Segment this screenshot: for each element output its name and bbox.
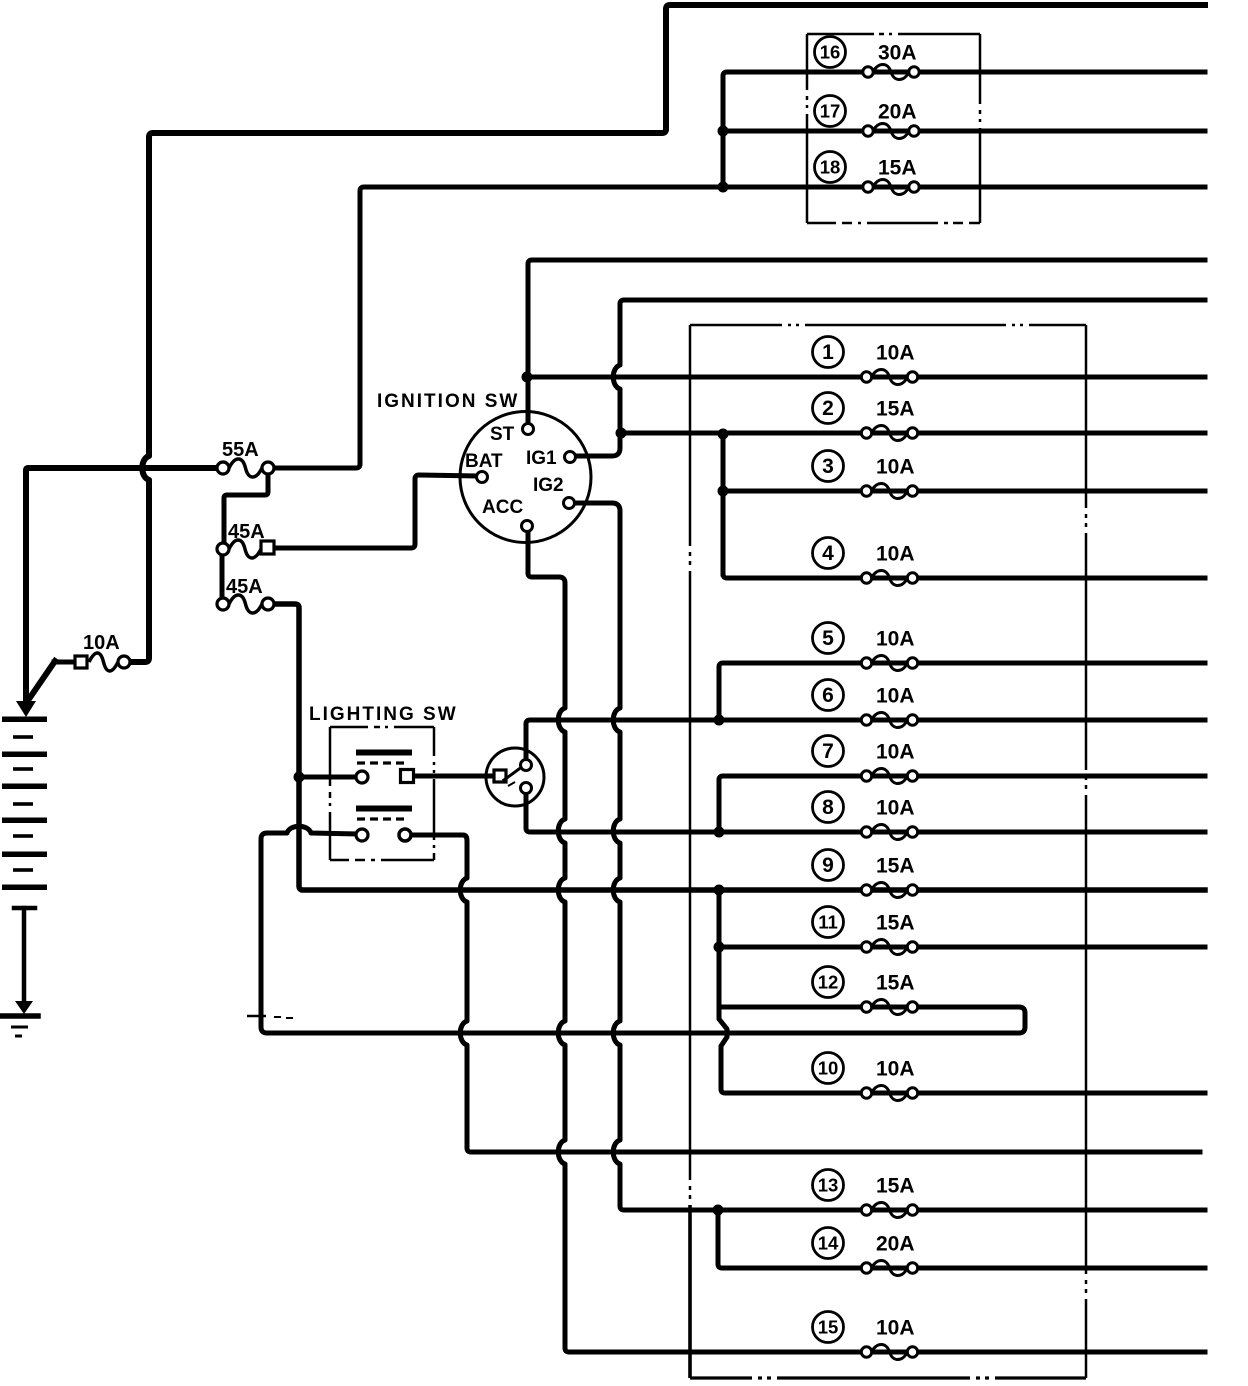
svg-text:20A: 20A xyxy=(876,1233,915,1256)
label fuse 6 10A xyxy=(813,680,915,711)
svg-text:45A: 45A xyxy=(228,521,265,543)
svg-text:IG1: IG1 xyxy=(526,448,557,469)
fuse box (fuses 16-18) dashed outline xyxy=(807,34,980,223)
wire fuse 3 row xyxy=(723,489,1205,494)
wire fuse 12 row and return loop to lighting switch xyxy=(261,826,1025,1033)
fuse 4 10A xyxy=(861,571,917,586)
svg-text:14: 14 xyxy=(818,1233,839,1254)
fuse 3 10A xyxy=(861,484,917,499)
lighting switch upper contact bar xyxy=(356,750,412,756)
svg-text:10A: 10A xyxy=(876,1058,915,1081)
fuse 18 15A xyxy=(863,180,919,195)
label BAT xyxy=(465,451,503,472)
svg-text:IGNITION SW: IGNITION SW xyxy=(377,391,519,412)
wire fuse 4 row xyxy=(723,574,1205,578)
dimmer switch upper terminal xyxy=(521,760,532,771)
svg-text:10A: 10A xyxy=(876,456,915,479)
fuse 15 10A xyxy=(861,1345,917,1360)
wire ignition ST terminal riser and output line y=260 xyxy=(528,260,1205,424)
svg-text:6: 6 xyxy=(822,684,834,707)
fuse 1 10A xyxy=(861,370,917,385)
svg-text:ACC: ACC xyxy=(482,497,523,518)
label fuse 2 15A xyxy=(813,393,915,424)
fuse 12 15A xyxy=(861,1000,917,1015)
wire 45A lower output via x=299 riser to lighting switch feed and fuse 9 row xyxy=(275,604,1205,890)
fuse 7 10A xyxy=(861,769,917,784)
label fuse 13 15A xyxy=(813,1170,915,1201)
fuse 6 10A xyxy=(861,713,917,728)
label fuse 14 20A xyxy=(813,1228,915,1259)
svg-text:IG2: IG2 xyxy=(533,475,564,496)
ignition switch body xyxy=(460,412,591,543)
wire battery positive to 55A fusible link xyxy=(26,468,217,701)
ignition terminal IG1 xyxy=(565,452,576,463)
junction IG2 / fuse 13 xyxy=(713,1205,724,1216)
wire fuse 17 row xyxy=(723,129,1205,134)
wire dimmer lower terminal to fuse 8 row xyxy=(526,793,1205,832)
svg-text:15A: 15A xyxy=(876,912,915,935)
wire battery positive to 10A fusible link (diagonal) xyxy=(29,661,76,699)
battery negative stem xyxy=(14,908,35,1002)
svg-text:10: 10 xyxy=(818,1058,839,1079)
lighting switch lower-right terminal xyxy=(399,829,411,841)
label fuse 4 10A xyxy=(813,538,915,569)
svg-text:15A: 15A xyxy=(876,1175,915,1198)
svg-text:12: 12 xyxy=(818,972,839,993)
fuse 16 30A xyxy=(863,65,919,80)
wire ignition IG1 terminal riser and output line y=300 xyxy=(576,300,1205,456)
junction fuse bus / fuse 3 xyxy=(718,486,729,497)
svg-text:9: 9 xyxy=(822,854,834,877)
junction lighting output / fuse 9 xyxy=(714,885,725,896)
svg-text:5: 5 xyxy=(822,627,834,650)
fusible link 45A (upper) xyxy=(217,540,274,558)
svg-text:15A: 15A xyxy=(876,398,915,421)
ignition terminal ST xyxy=(523,424,534,435)
label fuse 15 10A xyxy=(813,1312,915,1343)
battery positive arrowhead xyxy=(16,701,36,717)
wire fuse bus fuse 13 to fuse 14 xyxy=(718,1210,1205,1268)
wire 10A link output via left riser and top feed to right edge xyxy=(130,5,1205,662)
dimmer switch lower terminal xyxy=(521,783,532,794)
label 45A (lower) xyxy=(226,576,263,598)
ground arrowhead xyxy=(15,1001,33,1014)
ignition terminal BAT xyxy=(477,472,488,483)
label 45A (upper) xyxy=(228,521,265,543)
wire ignition IG2 terminal via long riser x=620 to fuse 13 row xyxy=(574,503,1205,1210)
wire fuse bus fuses 9-12 and 10 with crossover jog xyxy=(719,890,1205,1093)
label IG1 xyxy=(526,448,557,469)
wire 45A upper output to ignition BAT terminal xyxy=(275,475,477,548)
svg-text:10A: 10A xyxy=(876,797,915,820)
svg-text:10A: 10A xyxy=(83,632,120,654)
svg-text:10A: 10A xyxy=(876,685,915,708)
wire lighting switch upper-left terminal xyxy=(302,775,356,780)
svg-text:10A: 10A xyxy=(876,342,915,365)
svg-text:16: 16 xyxy=(820,42,841,63)
svg-text:LIGHTING SW: LIGHTING SW xyxy=(309,704,458,725)
label fuse 16 30A xyxy=(815,37,917,68)
wire 55A output down to 45A upper link xyxy=(224,473,268,541)
svg-text:10A: 10A xyxy=(876,741,915,764)
label IG2 xyxy=(533,475,564,496)
svg-text:11: 11 xyxy=(818,912,838,933)
wire lighting switch lower-right terminal via riser x=467 to output line y=1152 xyxy=(412,835,1200,1152)
fuse 8 10A xyxy=(861,825,917,840)
lighting switch upper-left terminal xyxy=(356,771,368,783)
label fuse 5 10A xyxy=(813,623,915,654)
wire fuse bus fuse 7 to fuse 8 xyxy=(719,776,1205,830)
junction fuse bus / fuse 11 xyxy=(714,942,725,953)
svg-text:13: 13 xyxy=(818,1175,839,1196)
label fuse 8 10A xyxy=(813,792,915,823)
fusible link 10A xyxy=(75,653,130,671)
fuse 11 15A xyxy=(861,940,917,955)
wire fuse 1 row from ST junction xyxy=(527,375,1205,380)
label ACC xyxy=(482,497,523,518)
fuse 10 10A xyxy=(861,1086,917,1101)
fusible link 55A xyxy=(217,459,274,477)
fusible link 45A (lower) xyxy=(217,595,274,613)
wire lighting switch upper-right terminal to dimmer switch xyxy=(413,774,492,779)
label ST xyxy=(490,424,515,445)
lighting switch upper-right terminal xyxy=(401,770,414,783)
label fuse 17 20A xyxy=(815,96,917,127)
fuse 14 20A xyxy=(861,1261,917,1276)
ignition terminal IG2 xyxy=(564,498,575,509)
svg-text:55A: 55A xyxy=(222,439,259,461)
ignition terminal ACC xyxy=(522,521,533,532)
lighting switch upper contact dashed xyxy=(357,761,404,764)
svg-text:7: 7 xyxy=(822,740,834,763)
wire between 45A fusible links xyxy=(220,556,225,597)
svg-text:15A: 15A xyxy=(878,157,917,180)
junction fuse bus / fuse 2 xyxy=(718,429,729,440)
wire 55A output to fuse 18 row (via riser x=360) xyxy=(274,187,1205,468)
dimmer switch lever xyxy=(504,769,519,786)
svg-text:10A: 10A xyxy=(876,543,915,566)
label IGNITION SW xyxy=(377,391,519,412)
lighting switch lower contact bar xyxy=(356,806,412,812)
label fuse 7 10A xyxy=(813,736,915,767)
fuse 5 10A xyxy=(861,656,917,671)
fuse 9 15A xyxy=(861,883,917,898)
svg-text:10A: 10A xyxy=(876,1317,915,1340)
junction fuse bus / fuse 17 xyxy=(718,126,729,137)
lighting switch lower-left terminal xyxy=(356,829,368,841)
label fuse 9 15A xyxy=(813,850,915,881)
wire dimmer upper terminal to fuse 6 row xyxy=(526,720,1205,758)
wire fuse bus to fuse 16 row xyxy=(723,72,1205,187)
fuse 2 15A xyxy=(861,426,917,441)
svg-text:8: 8 xyxy=(822,796,834,819)
label fuse 3 10A xyxy=(813,451,915,482)
wire fuse bus fuse 5 to fuse 6 xyxy=(719,663,1205,718)
lighting switch lower contact dashed xyxy=(357,817,404,820)
fuse 17 20A xyxy=(863,124,919,139)
junction ST output / fuse 1 xyxy=(522,372,533,383)
fuse 13 15A xyxy=(861,1203,917,1218)
svg-text:BAT: BAT xyxy=(465,451,503,472)
svg-text:4: 4 xyxy=(822,542,834,565)
junction fuse bus / fuse 18 xyxy=(718,182,729,193)
label fuse 12 15A xyxy=(813,967,915,998)
wire fuse bus fuses 2-4 xyxy=(721,434,726,574)
junction dimmer lower / fuse 8 xyxy=(714,827,725,838)
svg-text:2: 2 xyxy=(822,397,834,420)
fuse box (fuses 1-15) dashed outline xyxy=(690,325,1086,1378)
junction IG1 riser / fuse 2 xyxy=(616,428,627,439)
wire stub artifact at (247,1016) xyxy=(247,1016,293,1018)
svg-text:15A: 15A xyxy=(876,855,915,878)
wire fuse 2 row xyxy=(621,431,1205,436)
svg-text:17: 17 xyxy=(820,101,841,122)
wire ignition ACC terminal via long riser x=565 to fuse 15 row xyxy=(528,531,1205,1352)
label 55A xyxy=(222,439,259,461)
battery xyxy=(2,717,47,891)
ground symbol xyxy=(2,1016,38,1036)
svg-text:10A: 10A xyxy=(876,628,915,651)
svg-text:20A: 20A xyxy=(878,101,917,124)
dimmer switch left terminal xyxy=(494,770,506,782)
label fuse 11 15A xyxy=(813,907,915,938)
svg-text:ST: ST xyxy=(490,424,515,445)
svg-text:15A: 15A xyxy=(876,972,915,995)
label 10A (fusible link) xyxy=(83,632,120,654)
svg-text:1: 1 xyxy=(822,341,834,364)
svg-text:45A: 45A xyxy=(226,576,263,598)
label LIGHTING SW xyxy=(309,704,458,725)
label fuse 10 10A xyxy=(813,1053,915,1084)
label fuse 1 10A xyxy=(813,337,915,368)
svg-text:15: 15 xyxy=(818,1317,839,1338)
wire fuse 11 row xyxy=(719,945,1205,950)
junction lighting feed / upper-left terminal xyxy=(294,772,305,783)
svg-text:18: 18 xyxy=(820,157,841,178)
junction dimmer upper / fuse 6 xyxy=(714,715,725,726)
lighting switch box dashed outline xyxy=(330,727,434,860)
svg-text:3: 3 xyxy=(822,455,834,478)
dimmer switch body xyxy=(486,748,544,806)
svg-text:30A: 30A xyxy=(878,42,917,65)
label fuse 18 15A xyxy=(815,152,917,183)
